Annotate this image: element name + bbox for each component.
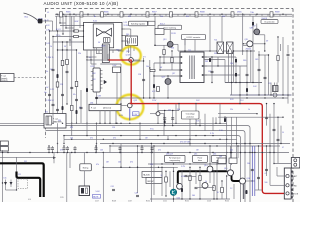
wire bottom vertical <box>226 176 228 199</box>
wire <box>280 44 282 51</box>
wire <box>242 14 244 55</box>
junction <box>59 22 60 23</box>
wire bottom vertical <box>161 167 163 196</box>
wire <box>204 74 240 76</box>
svg-text:IC11: IC11 <box>93 21 97 23</box>
junction <box>116 103 117 104</box>
wire <box>153 63 155 98</box>
connector CN2 <box>0 147 8 152</box>
junction <box>226 139 227 140</box>
junction <box>233 50 234 51</box>
junction <box>71 125 72 126</box>
wire vertical mid <box>212 117 214 130</box>
resistor R43 <box>189 176 191 181</box>
leader dash wire <box>14 77 46 79</box>
junction <box>165 171 166 172</box>
junction <box>165 195 166 196</box>
wire <box>204 56 236 58</box>
svg-text:472: 472 <box>158 150 161 152</box>
wire right field <box>239 66 241 104</box>
svg-text:Q98: Q98 <box>250 28 253 30</box>
svg-text:IC12: IC12 <box>91 66 95 68</box>
junction <box>226 152 227 153</box>
wire stub <box>63 150 65 153</box>
svg-text:Q17: Q17 <box>162 77 166 79</box>
wire <box>112 50 114 53</box>
wire <box>163 55 165 63</box>
svg-text:47u: 47u <box>73 94 76 96</box>
junction <box>217 65 218 66</box>
junction <box>151 152 152 153</box>
junction <box>231 152 232 153</box>
junction <box>258 94 259 95</box>
dashed border top <box>45 8 293 10</box>
callout temperature <box>165 155 186 162</box>
wire <box>250 51 252 83</box>
svg-text:470: 470 <box>60 150 63 152</box>
junction <box>184 14 185 15</box>
svg-text:C26: C26 <box>138 74 141 76</box>
svg-text:B+: B+ <box>46 71 48 73</box>
junction <box>143 97 144 98</box>
wire vertical mid <box>219 104 221 124</box>
resistor R41 <box>165 177 168 182</box>
wire <box>256 34 258 36</box>
svg-text:472 472 1M: 472 472 1M <box>180 142 190 144</box>
resistor on bus <box>170 12 173 17</box>
junction <box>86 56 87 57</box>
wire vertical mid <box>175 104 177 124</box>
junction <box>167 75 168 76</box>
IC IC12 <box>93 68 100 92</box>
junction <box>184 50 185 51</box>
wire <box>83 153 85 164</box>
wire <box>221 193 223 199</box>
capacitor C45 <box>251 169 254 170</box>
junction <box>66 103 67 104</box>
junction <box>86 123 87 124</box>
svg-text:B+: B+ <box>94 16 96 18</box>
wire <box>73 16 75 31</box>
wire ladder <box>86 60 88 136</box>
junction <box>52 36 53 37</box>
svg-text:47: 47 <box>282 147 284 149</box>
svg-text:1k: 1k <box>248 109 250 111</box>
svg-text:D31: D31 <box>205 61 208 63</box>
junction <box>189 139 190 140</box>
capacitor C77 dark <box>86 88 88 92</box>
transformer T11 <box>180 52 204 83</box>
junction <box>181 171 182 172</box>
blue wire pair a <box>251 146 253 196</box>
svg-text:Q99: Q99 <box>245 39 248 41</box>
capacitor C42 <box>136 195 139 196</box>
junction <box>167 152 168 153</box>
svg-text:CN5: CN5 <box>90 102 93 104</box>
junction <box>211 82 212 83</box>
wire <box>160 113 165 115</box>
junction <box>48 152 49 153</box>
svg-text:R908: R908 <box>200 12 205 14</box>
svg-text:C119: C119 <box>128 200 132 202</box>
svg-text:C99: C99 <box>112 127 115 129</box>
svg-text:Q14: Q14 <box>204 165 207 167</box>
junction <box>52 123 53 124</box>
svg-text:C26: C26 <box>60 84 63 86</box>
wire <box>269 146 271 185</box>
junction <box>149 97 150 98</box>
wire <box>86 50 88 60</box>
wire mid vertical <box>178 104 180 111</box>
relay RY11 pins <box>127 38 135 44</box>
junction <box>189 167 190 168</box>
capacitor C81 dark <box>62 106 64 110</box>
wire IC11 pin3 <box>53 36 81 38</box>
junction <box>141 145 142 146</box>
capacitor C35 <box>211 71 214 72</box>
transistor Q99 <box>247 41 253 47</box>
junction <box>273 103 274 104</box>
power trace B <box>232 176 240 181</box>
junction <box>209 145 210 146</box>
wire to CN91 <box>274 163 291 165</box>
svg-text:S14-18: S14-18 <box>262 18 268 20</box>
junction <box>65 16 66 17</box>
svg-text:D11: D11 <box>24 161 27 163</box>
junction <box>29 152 30 153</box>
junction <box>189 152 190 153</box>
junction <box>226 175 227 176</box>
junction <box>107 14 108 15</box>
capacitor C27 <box>70 87 73 88</box>
op-amp A in IC11 <box>97 28 104 36</box>
junction <box>262 152 263 153</box>
IC IC15 package <box>79 186 90 196</box>
junction <box>56 14 57 15</box>
svg-text:D905: D905 <box>237 12 242 14</box>
junction <box>57 30 58 31</box>
wire <box>266 146 268 176</box>
svg-text:2.2 k: 2.2 k <box>56 35 60 37</box>
junction <box>71 152 72 153</box>
transistor Q16 <box>240 178 246 184</box>
junction <box>242 50 243 51</box>
wire <box>90 60 92 64</box>
wire <box>100 63 121 65</box>
wire IC11 pin2 <box>50 30 81 32</box>
junction <box>115 123 116 124</box>
wire <box>221 16 223 41</box>
power bus wire <box>55 13 292 15</box>
wire stub <box>74 150 76 153</box>
junction <box>143 60 144 61</box>
junction <box>287 94 288 95</box>
capacitor C51 <box>163 118 166 119</box>
capacitor C78 dark <box>153 84 155 88</box>
IC11 pin dots <box>83 25 123 43</box>
wire <box>204 59 225 61</box>
resistor on bus <box>195 12 198 17</box>
svg-text:0.9 V: 0.9 V <box>56 29 61 31</box>
svg-text:D31: D31 <box>214 53 217 55</box>
svg-text:Q13: Q13 <box>163 39 166 41</box>
capacitor bus row <box>51 148 54 149</box>
wire <box>117 50 119 51</box>
junction <box>95 152 96 153</box>
junction <box>69 14 70 15</box>
wire <box>87 56 97 58</box>
svg-text:D16: D16 <box>177 109 180 111</box>
wire <box>233 51 235 83</box>
junction <box>66 49 67 50</box>
wire Q11 emitter <box>133 59 140 61</box>
IC11 inner die <box>93 24 114 48</box>
wire ladder <box>76 50 78 123</box>
wire <box>159 57 161 70</box>
capacitor C25 <box>75 99 78 100</box>
svg-text:10k: 10k <box>146 66 149 68</box>
svg-text:T14: T14 <box>214 40 217 42</box>
junction <box>219 123 220 124</box>
svg-text:11.9V: 11.9V <box>171 33 177 35</box>
wire bus a <box>225 82 262 84</box>
wire <box>167 76 169 79</box>
svg-text:D15: D15 <box>222 16 225 18</box>
wire IC11 pin1 <box>60 25 81 27</box>
wire stub <box>52 150 54 153</box>
capacitor C48 <box>265 117 268 118</box>
junction <box>256 14 257 15</box>
wire <box>153 146 155 195</box>
callout power stage <box>212 155 227 162</box>
wire T11 p1 <box>160 56 177 58</box>
wire right column <box>277 117 279 163</box>
wire right column <box>269 114 271 146</box>
junction <box>209 14 210 15</box>
wire long <box>178 50 255 52</box>
wire right field <box>276 83 278 87</box>
wire right field <box>282 37 284 95</box>
junction <box>57 152 58 153</box>
junction <box>90 59 91 60</box>
wire <box>287 57 289 96</box>
junction <box>268 54 269 55</box>
wire <box>118 50 124 52</box>
capacitor C47 <box>265 169 268 170</box>
svg-text:C115: C115 <box>60 197 64 199</box>
wire right field <box>235 57 237 83</box>
dashed border right <box>292 9 294 203</box>
junction <box>252 180 253 181</box>
wire <box>53 153 55 164</box>
svg-text:P.CON: P.CON <box>293 194 299 196</box>
wire <box>96 123 98 152</box>
svg-text:DC/DC converter: DC/DC converter <box>187 36 201 39</box>
wire <box>139 123 141 139</box>
svg-text:S11: S11 <box>45 112 48 114</box>
junction <box>159 69 160 70</box>
wire bottom vertical <box>189 167 191 199</box>
wire overvoltage row <box>158 110 179 112</box>
capacitor bus row <box>151 148 154 149</box>
wire stub <box>141 146 143 147</box>
svg-text:Q18,Q19: Q18,Q19 <box>166 153 173 155</box>
blue label box <box>93 195 101 199</box>
svg-text:Q16: Q16 <box>247 178 250 180</box>
wire <box>257 34 265 36</box>
junction <box>171 50 172 51</box>
junction <box>216 50 217 51</box>
resistor R11 <box>74 30 79 32</box>
junction <box>76 123 77 124</box>
wire <box>165 182 167 196</box>
svg-text:47k: 47k <box>130 162 133 164</box>
svg-text:Switching regulator: Switching regulator <box>131 23 146 26</box>
junction <box>157 103 158 104</box>
diode D11 <box>4 180 7 191</box>
junction <box>67 152 68 153</box>
junction <box>151 143 152 144</box>
svg-text:R99: R99 <box>186 16 189 18</box>
wire right field <box>258 51 260 95</box>
diode D21 <box>104 80 107 84</box>
junction <box>219 139 220 140</box>
junction <box>49 30 50 31</box>
junction <box>57 49 58 50</box>
svg-text:472: 472 <box>113 138 116 140</box>
junction <box>277 36 278 37</box>
wire stub <box>67 146 69 147</box>
wire <box>52 21 54 31</box>
wire right field <box>252 16 254 82</box>
junction <box>73 30 74 31</box>
wire T11 p3 <box>160 69 177 71</box>
svg-text:103: 103 <box>100 150 103 152</box>
junction <box>164 125 165 126</box>
wire band 1 <box>218 113 257 115</box>
wire <box>231 51 233 95</box>
capacitor bus row <box>66 148 69 149</box>
junction <box>66 41 67 42</box>
junction <box>109 123 110 124</box>
diode D35 dark <box>209 58 211 62</box>
power lead-in curve <box>24 13 38 21</box>
capacitor C53 <box>142 79 145 80</box>
junction <box>103 152 104 153</box>
CN91 pin 2 <box>294 163 297 166</box>
blue wire pair b <box>254 146 256 196</box>
resistor R22 <box>66 59 69 64</box>
junction <box>139 139 140 140</box>
junction <box>195 123 196 124</box>
wire mid vertical <box>172 111 174 126</box>
capacitor C28 <box>48 94 51 95</box>
svg-text:5.0V: 5.0V <box>96 191 101 193</box>
junction <box>228 50 229 51</box>
junction <box>103 167 104 168</box>
capacitor C43 <box>185 175 188 176</box>
wire <box>268 55 270 95</box>
label box B <box>146 178 162 184</box>
resistor R32 <box>157 86 160 91</box>
svg-text:R154: R154 <box>225 200 229 202</box>
wire <box>264 35 266 51</box>
junction <box>215 123 216 124</box>
wire <box>216 160 218 199</box>
wire <box>133 46 135 52</box>
junction <box>171 14 172 15</box>
junction <box>153 145 154 146</box>
wire <box>277 37 279 56</box>
junction <box>63 145 64 146</box>
capacitor C44 <box>195 187 198 188</box>
svg-text:Q15: Q15 <box>194 153 197 155</box>
junction <box>119 152 120 153</box>
junction <box>16 189 17 190</box>
junction <box>112 143 113 144</box>
junction <box>153 75 154 76</box>
capacitor C34 <box>264 77 267 78</box>
wire mid vertical <box>215 117 217 123</box>
junction <box>62 49 63 50</box>
wire <box>204 65 247 67</box>
wire <box>63 139 65 143</box>
junction <box>216 145 217 146</box>
capacitor C98 <box>95 97 98 98</box>
capacitor bus row <box>48 148 51 149</box>
wire <box>102 153 104 203</box>
svg-text:1k: 1k <box>205 181 207 183</box>
svg-text:R906: R906 <box>104 12 109 14</box>
junction <box>216 163 217 164</box>
svg-text:D16: D16 <box>243 60 246 62</box>
junction <box>264 43 265 44</box>
resistor on bus <box>270 12 273 17</box>
junction <box>62 123 63 124</box>
wire <box>130 29 132 38</box>
transistor Q15 <box>228 170 234 176</box>
junction <box>159 56 160 57</box>
wire <box>277 61 279 83</box>
wire mid vertical <box>164 111 166 126</box>
F.can master icon <box>46 116 52 125</box>
wire <box>69 16 71 46</box>
wire stub <box>95 146 97 147</box>
junction <box>73 14 74 15</box>
junction <box>76 49 77 50</box>
junction <box>221 180 222 181</box>
resistor on bus <box>80 12 83 17</box>
callout DC/DC converter <box>182 35 206 40</box>
junction <box>69 39 70 40</box>
junction <box>120 123 121 124</box>
junction <box>120 135 121 136</box>
svg-text:47k: 47k <box>96 164 99 166</box>
junction <box>173 171 174 172</box>
resistor R12 <box>74 35 79 37</box>
wire <box>154 16 156 45</box>
junction <box>74 152 75 153</box>
junction <box>139 123 140 124</box>
wire to red node <box>87 59 108 61</box>
wire bus b blue <box>230 94 292 96</box>
wire vertical mid <box>163 114 165 136</box>
junction <box>244 152 245 153</box>
capacitor C84 dark <box>246 190 248 194</box>
resistor R21 <box>56 82 59 87</box>
svg-text:22k: 22k <box>230 109 233 111</box>
wire bottom vertical <box>169 171 171 187</box>
